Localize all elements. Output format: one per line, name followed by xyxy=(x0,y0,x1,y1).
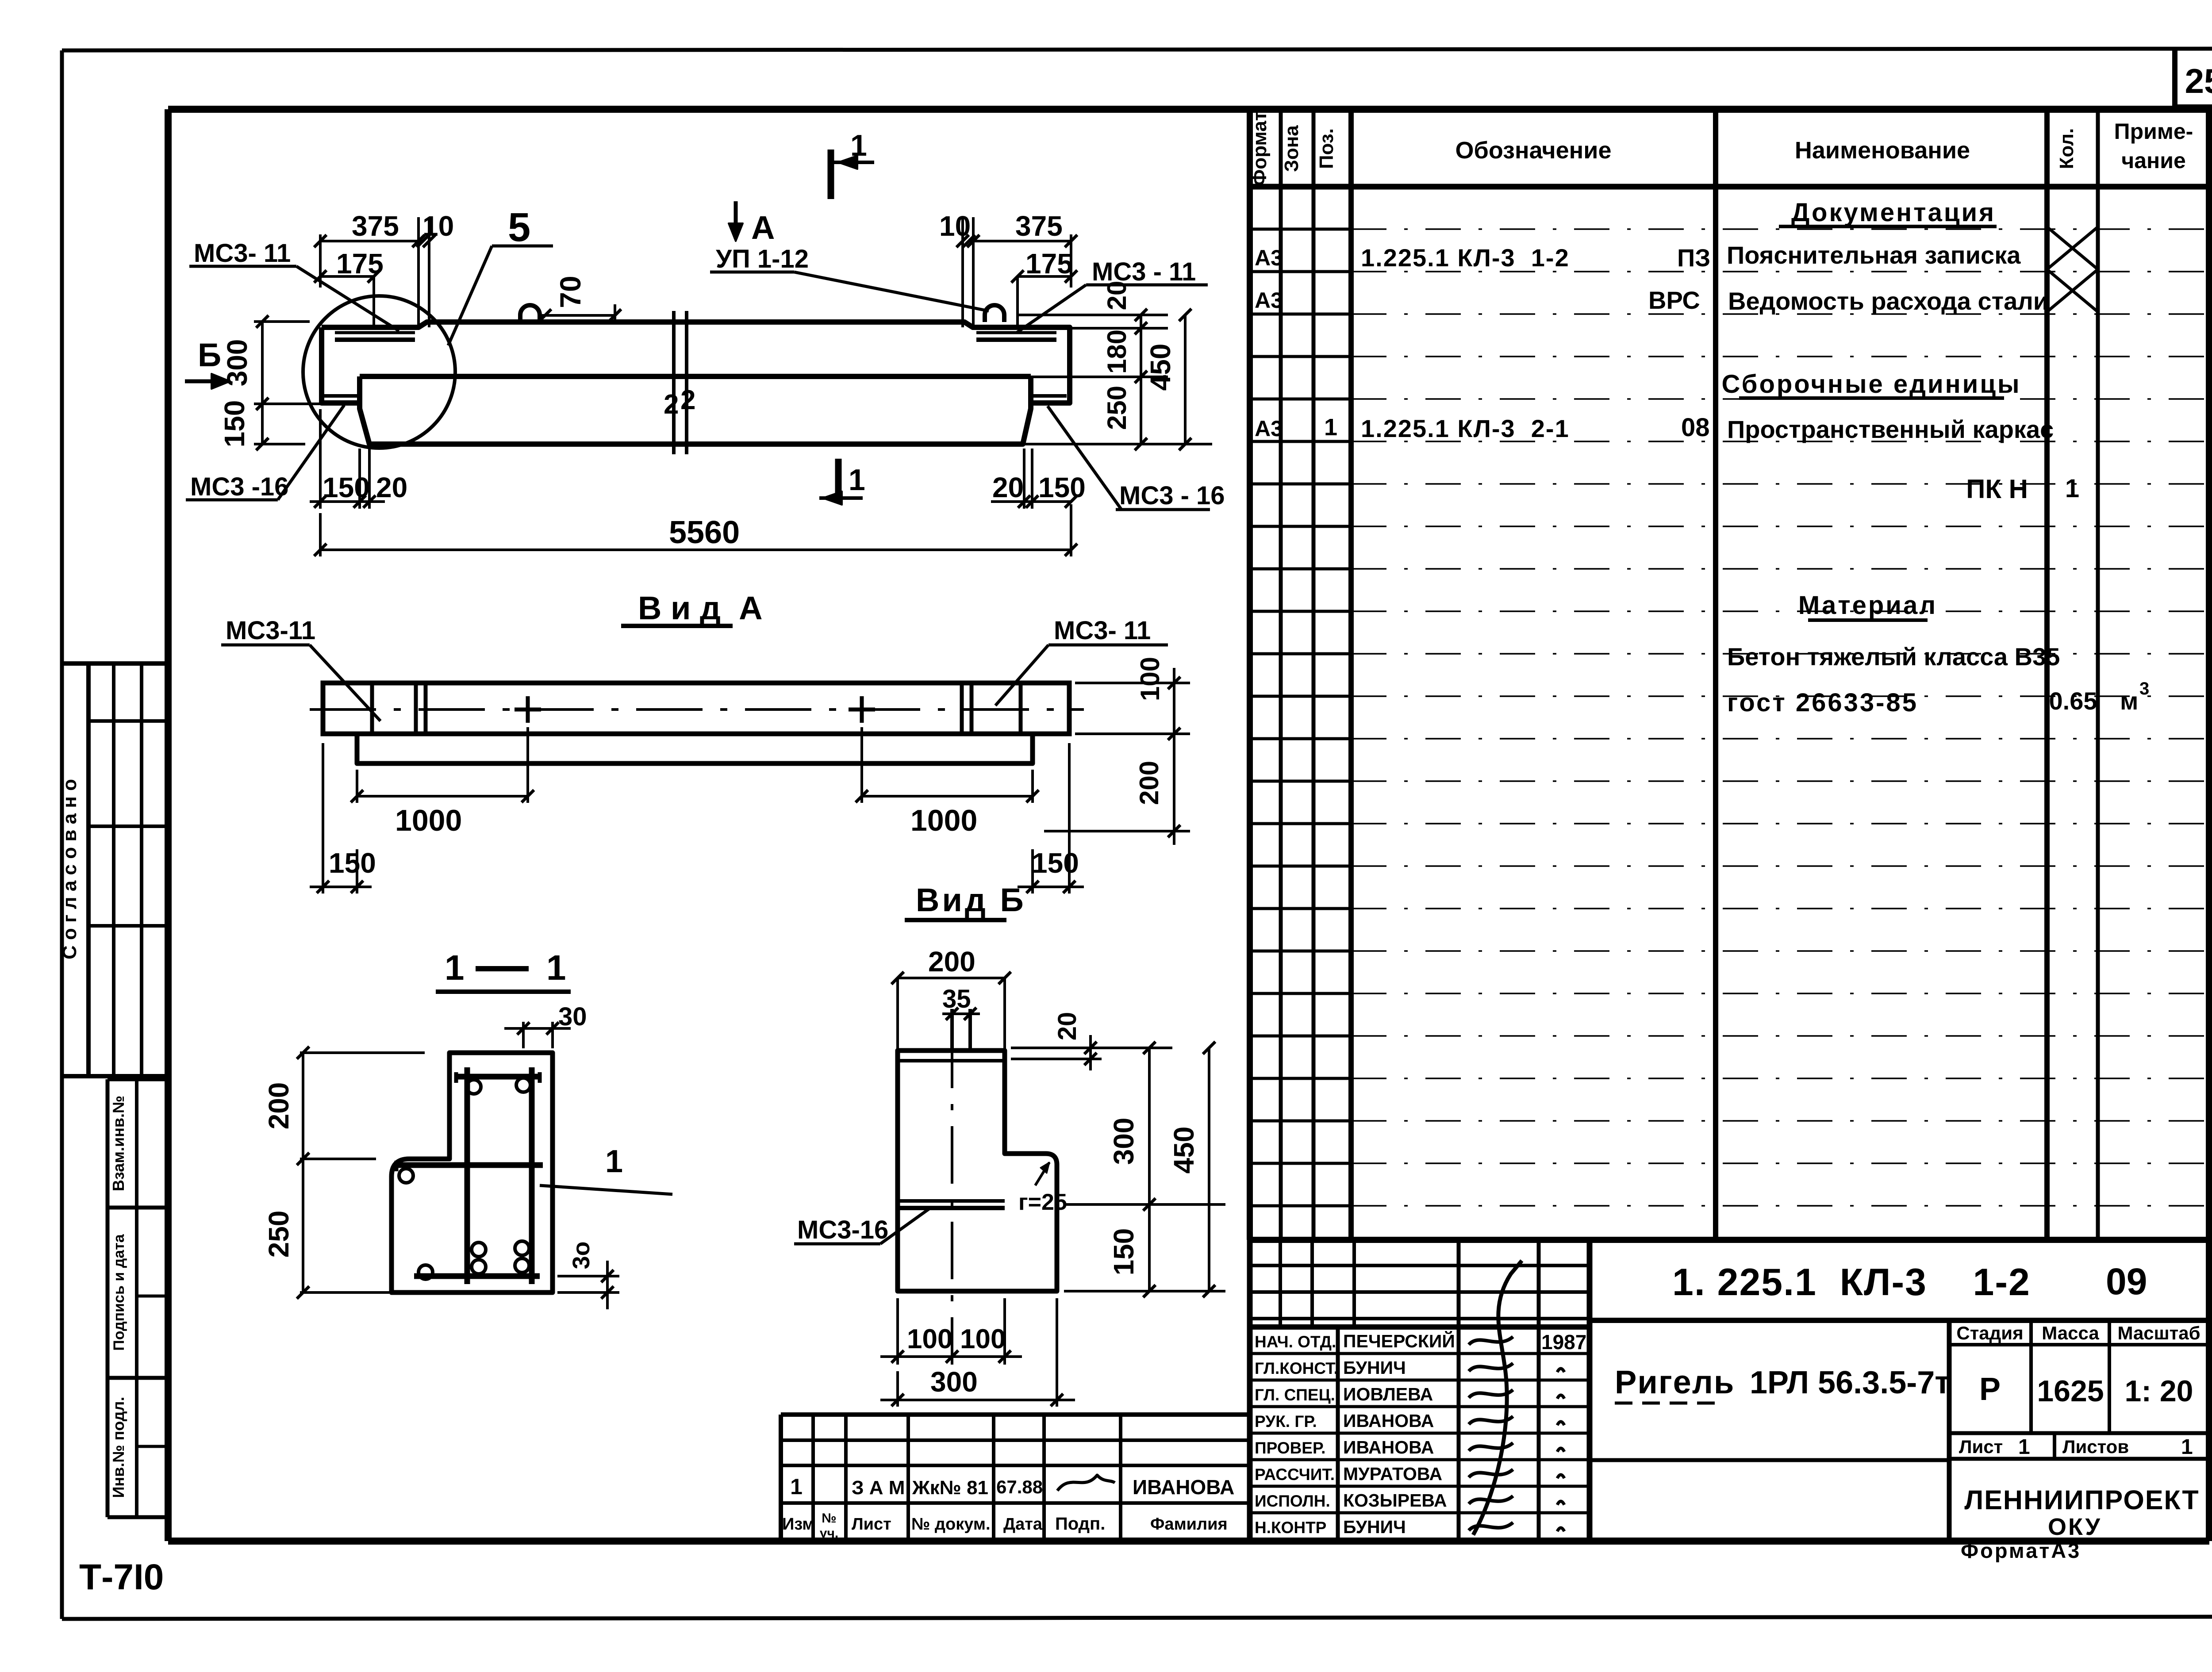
view A cross mark left xyxy=(515,696,541,723)
view Б fillet label г=25 xyxy=(1018,1162,1067,1215)
svg-text:Зона: Зона xyxy=(1281,125,1302,172)
svg-text:Инв.№ подл.: Инв.№ подл. xyxy=(109,1397,127,1498)
label МС3-11 view A left xyxy=(221,616,380,721)
label МС3-16 view Б xyxy=(794,1209,929,1244)
svg-text:ИВАНОВА: ИВАНОВА xyxy=(1343,1411,1434,1431)
svg-text:175: 175 xyxy=(1025,248,1073,280)
section 1-1 rebar cage xyxy=(396,1067,543,1284)
svg-text:Н.КОНТР: Н.КОНТР xyxy=(1255,1519,1326,1537)
dimension 70 at loop xyxy=(539,276,621,323)
section 1-1 dimension 30 top xyxy=(504,1002,587,1048)
svg-text:МС3 - 16: МС3 - 16 xyxy=(1119,481,1225,510)
revision row 1 ЗАМ xyxy=(790,1474,1234,1499)
svg-text:175: 175 xyxy=(336,248,384,280)
sidebar cell Инв.№ подл. xyxy=(108,1378,168,1517)
svg-text:1. 225.1 КЛ-3 1-2: 1. 225.1 КЛ-3 1-2 xyxy=(1672,1261,2031,1304)
svg-text:МС3-16: МС3-16 xyxy=(797,1216,888,1244)
svg-text:1: 1 xyxy=(790,1474,803,1499)
svg-text:35: 35 xyxy=(942,985,971,1013)
label МС3-16 right xyxy=(1048,406,1225,510)
svg-text:150: 150 xyxy=(1038,472,1086,503)
svg-text:Жк№ 81: Жк№ 81 xyxy=(912,1477,988,1499)
svg-text:ИОВЛЕВА: ИОВЛЕВА xyxy=(1343,1384,1433,1404)
view A centerline xyxy=(310,708,1084,711)
beam elevation outline xyxy=(322,322,1070,444)
svg-text:МС3 -16: МС3 -16 xyxy=(190,472,288,501)
svg-text:1: 1 xyxy=(445,948,465,987)
svg-text:Наименование: Наименование xyxy=(1795,137,1970,164)
section 1-1 dimension 30 bottom xyxy=(557,1241,619,1309)
svg-text:Документация: Документация xyxy=(1791,198,1996,227)
revision table grid xyxy=(781,1415,1250,1541)
svg-text:БУНИЧ: БУНИЧ xyxy=(1343,1358,1406,1378)
spec section title Материал xyxy=(1798,591,1937,620)
svg-text:РУК. ГР.: РУК. ГР. xyxy=(1255,1412,1317,1430)
view Б dimension 200 top xyxy=(891,946,1011,1051)
svg-text:ФорматА3: ФорматА3 xyxy=(1961,1539,2081,1562)
svg-text:КОЗЫРЕВА: КОЗЫРЕВА xyxy=(1343,1490,1447,1511)
svg-text:100: 100 xyxy=(907,1324,952,1354)
spec row ГОСТ 26633-85 xyxy=(1727,679,2149,717)
dimension 20/150 bottom right xyxy=(991,449,1086,509)
view Б dimension 20 right xyxy=(1011,1012,1172,1070)
svg-text:Бетон тяжелый класса В35: Бетон тяжелый класса В35 xyxy=(1727,643,2060,671)
svg-text:Формат: Формат xyxy=(1249,111,1271,186)
svg-text:200: 200 xyxy=(928,946,975,978)
view Б plate МС3-16 xyxy=(899,1201,1005,1208)
svg-text:1: 1 xyxy=(2065,474,2079,503)
lifting loop left xyxy=(520,305,540,322)
view A dimension 150 left xyxy=(310,743,376,894)
svg-text:Поз.: Поз. xyxy=(1316,128,1337,169)
view A end caps and plate lines xyxy=(372,683,1021,734)
organization ЛЕННИИПРОЕКТ xyxy=(1964,1485,2199,1540)
view Б dimension 300/150 xyxy=(1064,1042,1225,1297)
svg-text:ИВАНОВА: ИВАНОВА xyxy=(1133,1476,1234,1499)
title block stamp fields xyxy=(1956,1323,2200,1459)
sheet number box xyxy=(2175,50,2212,107)
svg-text:ЛЕННИИПРОЕКТ: ЛЕННИИПРОЕКТ xyxy=(1964,1485,2199,1515)
label МС3-11 view A right xyxy=(995,616,1168,706)
spec section title Документация xyxy=(1779,198,1997,227)
svg-text:5: 5 xyxy=(508,205,530,250)
svg-text:Материал: Материал xyxy=(1798,591,1937,620)
embedded plate МС3-16 right xyxy=(1029,394,1067,398)
svg-text:300: 300 xyxy=(930,1366,978,1398)
spec section title Сборочные единицы xyxy=(1722,370,2021,399)
svg-text:ПЗ: ПЗ xyxy=(1677,244,1710,272)
svg-text:Приме-: Приме- xyxy=(2114,119,2193,144)
svg-text:70: 70 xyxy=(554,276,587,308)
svg-text:Ведомость расхода стали: Ведомость расхода стали xyxy=(1728,287,2048,315)
svg-text:ИВАНОВА: ИВАНОВА xyxy=(1343,1437,1434,1457)
svg-text:С о г л а с о в а н о: С о г л а с о в а н о xyxy=(59,779,81,959)
svg-text:1.225.1 КЛ-3 2-1: 1.225.1 КЛ-3 2-1 xyxy=(1361,414,1570,442)
svg-text:Пояснительная записка: Пояснительная записка xyxy=(1727,241,2021,269)
section cut 1 bottom xyxy=(819,459,865,505)
view Б dimension 300 bottom xyxy=(880,1298,1075,1407)
svg-text:чание: чание xyxy=(2121,148,2186,173)
svg-text:Обозначение: Обозначение xyxy=(1455,137,1611,164)
view Б dimension 35 xyxy=(942,985,980,1020)
specification table grid xyxy=(1250,109,2209,1240)
svg-text:БУНИЧ: БУНИЧ xyxy=(1343,1517,1406,1537)
svg-text:НАЧ. ОТД.: НАЧ. ОТД. xyxy=(1255,1333,1336,1351)
section 1-1 bar sections xyxy=(399,1078,530,1279)
spec row ВРС Ведомость расхода стали xyxy=(1255,286,2048,315)
view A title xyxy=(621,590,763,626)
spec row Бетон тяжелый класса В35 xyxy=(1727,643,2060,671)
revision table header row xyxy=(782,1511,1228,1541)
svg-text:Подп.: Подп. xyxy=(1055,1514,1105,1534)
svg-text:гост 26633-85: гост 26633-85 xyxy=(1727,688,1918,717)
svg-text:ПРОВЕР.: ПРОВЕР. xyxy=(1255,1439,1325,1457)
format note xyxy=(1961,1539,2081,1562)
svg-text:Изм: Изм xyxy=(782,1515,814,1534)
dimension 175 right xyxy=(1011,248,1077,330)
view Б outline xyxy=(898,1051,1057,1291)
svg-text:1: 1 xyxy=(850,129,867,162)
drawing frame xyxy=(168,109,2209,1541)
dimension 10 left xyxy=(412,210,454,327)
label МС3-11 left xyxy=(189,239,399,331)
svg-text:150: 150 xyxy=(219,400,250,448)
svg-text:РАССЧИТ.: РАССЧИТ. xyxy=(1255,1465,1335,1484)
view arrow Б xyxy=(185,337,230,389)
svg-text:ОКУ: ОКУ xyxy=(2048,1514,2102,1540)
svg-text:100: 100 xyxy=(1135,657,1165,701)
label МС3-11 right xyxy=(1017,257,1208,333)
svg-text:375: 375 xyxy=(352,210,399,242)
svg-text:150: 150 xyxy=(323,472,370,503)
embedded plate МС3-11 left xyxy=(335,333,415,340)
svg-text:200: 200 xyxy=(263,1082,295,1130)
svg-text:20: 20 xyxy=(1053,1012,1082,1041)
view A outline xyxy=(323,683,1069,763)
view Б centerline xyxy=(951,1031,953,1323)
specification table headers xyxy=(1249,111,2193,186)
title block grid xyxy=(1250,1240,2209,1541)
svg-text:10: 10 xyxy=(422,210,454,242)
svg-text:20: 20 xyxy=(1102,281,1132,311)
svg-text:Т-7I0: Т-7I0 xyxy=(79,1557,164,1597)
svg-text:150: 150 xyxy=(329,847,376,879)
svg-text:Пространственный каркас: Пространственный каркас xyxy=(1727,415,2054,443)
svg-text:Сборочные единицы: Сборочные единицы xyxy=(1722,370,2021,399)
svg-text:25: 25 xyxy=(2185,61,2212,100)
svg-text:А3: А3 xyxy=(1255,288,1283,313)
dimension 175 left xyxy=(314,248,384,330)
embedded plate МС3-11 right xyxy=(976,333,1056,340)
view Б dimension 450 xyxy=(1168,1042,1215,1297)
svg-text:Кол.: Кол. xyxy=(2056,128,2078,169)
svg-text:Масса: Масса xyxy=(2042,1323,2099,1343)
svg-text:Ригель: Ригель xyxy=(1615,1364,1735,1400)
title block staff rows xyxy=(1255,1331,1586,1537)
svg-text:Дата: Дата xyxy=(1003,1515,1043,1534)
svg-text:3о: 3о xyxy=(568,1241,595,1269)
dimension 5560 xyxy=(314,504,1077,556)
section 1-1 title xyxy=(436,948,571,992)
svg-text:МС3-11: МС3-11 xyxy=(226,616,315,645)
approval box Соглаcовано xyxy=(59,663,168,1076)
svg-text:МУРАТОВА: МУРАТОВА xyxy=(1343,1464,1442,1484)
break lines with 2-2 marks xyxy=(664,311,695,454)
section 1-1 dimension 200 xyxy=(263,1047,425,1292)
svg-text:1625: 1625 xyxy=(2037,1374,2104,1408)
svg-text:№: № xyxy=(822,1511,836,1526)
svg-text:В и д А: В и д А xyxy=(638,590,763,626)
svg-text:3: 3 xyxy=(2139,679,2149,698)
svg-text:1: 1 xyxy=(2181,1435,2193,1459)
svg-text:ПК Н: ПК Н xyxy=(1966,474,2028,504)
svg-text:А3: А3 xyxy=(1255,245,1283,270)
svg-text:г=25: г=25 xyxy=(1018,1189,1067,1215)
dimension 300/150 left chain xyxy=(219,315,323,450)
svg-text:67.88: 67.88 xyxy=(996,1476,1043,1497)
svg-text:375: 375 xyxy=(1015,210,1063,242)
svg-text:Фамилия: Фамилия xyxy=(1150,1515,1228,1534)
dimension 150/20 bottom left xyxy=(310,409,407,509)
svg-text:1000: 1000 xyxy=(910,804,977,837)
svg-text:А3: А3 xyxy=(1255,416,1283,441)
view A cross mark right xyxy=(849,696,875,723)
svg-text:МС3- 11: МС3- 11 xyxy=(1054,616,1151,645)
svg-text:300: 300 xyxy=(1108,1118,1140,1165)
spec row Пространственный каркас xyxy=(1255,413,2054,443)
svg-text:Лист: Лист xyxy=(852,1515,891,1534)
svg-text:250: 250 xyxy=(1102,386,1132,430)
svg-text:Лист: Лист xyxy=(1959,1436,2003,1457)
section 1-1 dimension 250 xyxy=(263,1211,389,1299)
svg-text:150: 150 xyxy=(1032,847,1079,879)
svg-text:Вид Б: Вид Б xyxy=(916,882,1026,918)
svg-text:30: 30 xyxy=(558,1002,587,1031)
label 5 leader xyxy=(448,205,553,345)
svg-text:уч.: уч. xyxy=(820,1526,838,1541)
svg-text:5560: 5560 xyxy=(669,515,740,550)
signatures column squiggles xyxy=(1469,1261,1522,1535)
svg-text:МС3- 11: МС3- 11 xyxy=(194,239,291,268)
svg-text:1: 1 xyxy=(1324,414,1337,441)
svg-text:№ докум.: № докум. xyxy=(911,1515,991,1534)
svg-text:УП 1-12: УП 1-12 xyxy=(716,245,809,273)
svg-text:1РЛ 56.3.5-7т: 1РЛ 56.3.5-7т xyxy=(1750,1365,1951,1400)
svg-text:1: 1 xyxy=(849,463,865,497)
svg-text:ПЕЧЕРСКИЙ: ПЕЧЕРСКИЙ xyxy=(1343,1331,1455,1351)
svg-text:09: 09 xyxy=(2106,1261,2147,1302)
svg-text:1000: 1000 xyxy=(395,804,462,837)
svg-text:450: 450 xyxy=(1168,1127,1200,1174)
view Б dimension 100/100 bottom xyxy=(880,1298,1022,1365)
svg-text:1987: 1987 xyxy=(1541,1331,1586,1354)
view A dimension 100/200 right xyxy=(1044,657,1190,845)
dimension 375 left xyxy=(314,210,429,288)
svg-text:250: 250 xyxy=(263,1211,295,1258)
view A dimension 1000 right xyxy=(856,727,1039,837)
svg-text:0.65: 0.65 xyxy=(2049,687,2097,715)
detail circle 5 xyxy=(303,296,455,448)
svg-text:ВРС: ВРС xyxy=(1648,286,1700,314)
svg-text:100: 100 xyxy=(960,1324,1006,1354)
svg-text:200: 200 xyxy=(1134,761,1164,805)
svg-text:Масштаб: Масштаб xyxy=(2117,1323,2200,1343)
document code T-710 xyxy=(79,1557,164,1597)
svg-text:20: 20 xyxy=(992,472,1024,503)
section 1-1 leader 1 xyxy=(540,1144,672,1194)
lifting loop right xyxy=(985,305,1004,322)
section 1-1 outline xyxy=(392,1053,553,1292)
svg-text:Листов: Листов xyxy=(2062,1436,2129,1457)
view Б anchor stubs 35 xyxy=(952,1009,970,1051)
svg-text:ИСПОЛН.: ИСПОЛН. xyxy=(1255,1492,1330,1510)
svg-text:Взам.инв.№: Взам.инв.№ xyxy=(109,1096,127,1191)
section cut 1 top xyxy=(831,129,874,199)
svg-text:ГЛ.КОНСТ.: ГЛ.КОНСТ. xyxy=(1255,1359,1338,1377)
svg-text:180: 180 xyxy=(1102,330,1132,374)
svg-text:ГЛ. СПЕЦ.: ГЛ. СПЕЦ. xyxy=(1255,1386,1335,1404)
svg-text:2: 2 xyxy=(680,385,695,415)
title block document number xyxy=(1672,1261,2147,1304)
view Б title xyxy=(905,882,1026,920)
svg-text:150: 150 xyxy=(1108,1228,1140,1276)
sidebar cell Подпись и дата xyxy=(108,1208,168,1378)
svg-text:1.225.1 КЛ-3 1-2: 1.225.1 КЛ-3 1-2 xyxy=(1361,244,1570,272)
spec row ПКН quantity 1 xyxy=(1966,474,2079,504)
svg-text:1: 1 xyxy=(546,948,566,987)
svg-text:А: А xyxy=(751,209,775,246)
view arrow А xyxy=(729,201,775,246)
svg-text:1: 1 xyxy=(2018,1435,2030,1459)
label УП 1-12 xyxy=(710,245,989,311)
dimension 10 right xyxy=(939,210,979,327)
spec row ПЗ Пояснительная записка xyxy=(1255,241,2021,272)
view A dimension 1000 left xyxy=(351,727,534,837)
sidebar cell Взам.инв.№ xyxy=(108,1079,168,1208)
svg-text:Подпись и дата: Подпись и дата xyxy=(111,1234,127,1351)
svg-text:Р: Р xyxy=(1979,1372,2001,1407)
title block name Ригель xyxy=(1615,1364,1951,1403)
svg-text:08: 08 xyxy=(1681,413,1710,442)
quantity column cross-outs xyxy=(2047,227,2098,312)
label МС3-16 left xyxy=(186,405,344,501)
dimension 20/180/250/450 right chain xyxy=(1018,281,1212,450)
svg-text:З А М: З А М xyxy=(852,1477,905,1499)
view A dimension 150 right xyxy=(1018,743,1084,894)
svg-text:2: 2 xyxy=(664,389,679,420)
svg-text:10: 10 xyxy=(939,210,971,242)
svg-text:Б: Б xyxy=(198,337,221,373)
svg-text:450: 450 xyxy=(1144,344,1176,391)
svg-text:20: 20 xyxy=(376,472,407,503)
svg-text:1: 20: 1: 20 xyxy=(2125,1374,2193,1408)
svg-text:Стадия: Стадия xyxy=(1956,1323,2023,1343)
svg-text:1: 1 xyxy=(605,1144,623,1179)
svg-text:300: 300 xyxy=(221,339,253,387)
svg-text:м: м xyxy=(2120,687,2138,715)
dimension 375 right xyxy=(963,210,1077,288)
embedded plate МС3-16 left xyxy=(324,394,362,398)
